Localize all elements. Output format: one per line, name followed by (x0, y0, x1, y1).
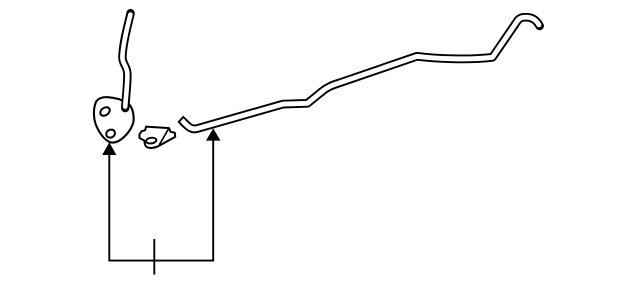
plate lower hole (105, 128, 116, 139)
arrowhead left (102, 142, 116, 155)
main rod white core right (320, 17, 539, 93)
clip body (139, 127, 175, 148)
clip collar ellipse (146, 137, 157, 144)
main rod white core left (182, 92, 322, 129)
plate upper hole (99, 105, 112, 117)
lever plate (94, 97, 134, 142)
arrowhead right (206, 128, 221, 140)
lever rod (122, 13, 130, 108)
main rod right part (rounded hook end) (320, 17, 540, 93)
callout bracket horizontal + vertical lines (109, 139, 213, 261)
main rod left part (flat angled end) (180, 92, 322, 129)
callout tick mark (153, 239, 155, 275)
clip fold line (159, 129, 168, 145)
